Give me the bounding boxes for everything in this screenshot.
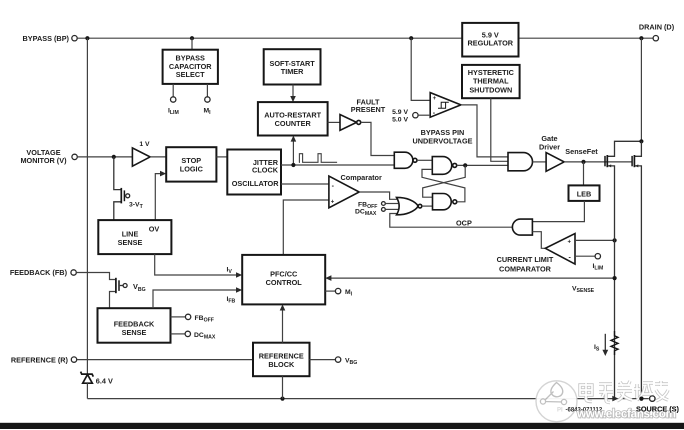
svg-text:MONITOR (V): MONITOR (V): [20, 156, 67, 165]
wire leb to and ocp: [532, 201, 584, 222]
wire refblock to pfc: [282, 310, 284, 343]
junction drain fets: [639, 139, 643, 143]
junction undervoltage tap: [409, 36, 413, 40]
junction vmon tap: [112, 155, 116, 159]
svg-text:Driver: Driver: [539, 142, 560, 151]
box PFC/CC CONTROL: [242, 255, 325, 305]
wire cross latchA to latchB: [423, 165, 466, 197]
wire reference: [77, 359, 253, 361]
buffer gate driver: [546, 153, 564, 172]
arrow VSENSE into pfc: [325, 275, 331, 281]
wire fbsense DCMAX stub: [171, 333, 186, 335]
wire ILIM stub: [172, 84, 174, 97]
wire BCS stub: [191, 38, 193, 50]
arrow into counter bottom: [291, 136, 297, 142]
wire IFB to pfc: [153, 290, 237, 308]
junction bypass-left bus: [85, 36, 89, 40]
watermark url: [576, 406, 677, 421]
nand gate latch A: [432, 157, 456, 175]
svg-text:SOURCE (S): SOURCE (S): [636, 405, 680, 414]
diode zener 6.4V: [81, 372, 94, 399]
wire fault to nand1: [361, 122, 395, 155]
svg-text:TIMER: TIMER: [281, 67, 304, 76]
pin FEEDBACK (FB): [10, 268, 76, 277]
wire comparator out to nor: [359, 192, 397, 199]
label CURRENT LIMIT COMPARATOR: [497, 255, 554, 274]
label Gate Driver: [539, 134, 560, 151]
box 5.9 V REGULATOR: [462, 23, 518, 57]
wire voltage monitor: [77, 156, 132, 158]
wire ocp and input2 from comparator: [532, 232, 545, 249]
label BYPASS PIN UNDERVOLTAGE: [413, 128, 473, 145]
wire and3 to driver: [533, 161, 547, 163]
pin SOURCE (S) redraw over watermark: [636, 396, 680, 414]
node MI pfc: [335, 288, 340, 293]
svg-text:SenseFet: SenseFet: [565, 147, 598, 156]
svg-text:BLOCK: BLOCK: [268, 360, 295, 369]
wire bottom rail: [87, 398, 648, 400]
node MI: [205, 97, 210, 102]
svg-text:COMPARATOR: COMPARATOR: [499, 265, 552, 274]
wire cl comp plus input: [575, 239, 615, 241]
box AUTO-RESTART COUNTER: [258, 102, 328, 135]
and gate U4 gate-drive: [508, 153, 533, 171]
wire VBG stub: [310, 359, 336, 361]
svg-text:OSCILLATOR: OSCILLATOR: [232, 179, 279, 188]
junction latchA out: [463, 163, 467, 167]
svg-text:+: +: [331, 200, 335, 206]
svg-text:5.9 V: 5.9 V: [392, 109, 408, 116]
box SOFT-START TIMER: [264, 49, 321, 84]
wire cl comp minus input: [575, 255, 595, 257]
box LINE SENSE: [98, 220, 171, 254]
junction leb tap: [581, 160, 585, 164]
junction drain: [639, 36, 643, 40]
wire drain bus: [640, 38, 642, 141]
pin REFERENCE (R): [11, 355, 77, 364]
arrow into stop logic: [160, 171, 166, 177]
arrow on source rail: [612, 396, 618, 402]
box HYSTERETIC THERMAL SHUTDOWN: [462, 65, 520, 98]
wire soft-start to counter: [292, 85, 294, 97]
wire comparator plus to pfc: [283, 200, 329, 255]
svg-text:Comparator: Comparator: [341, 173, 383, 182]
wire thermal to and3: [491, 98, 508, 161]
arrow IFB into pfc: [236, 287, 242, 293]
wire IV to pfc: [155, 254, 237, 275]
svg-text:PRESENT: PRESENT: [351, 105, 386, 114]
wire undervoltage out to and3: [461, 105, 508, 157]
wire nor to nandB: [422, 205, 433, 207]
box LEB: [569, 185, 600, 201]
junction reference block ground: [280, 397, 284, 401]
wire feedback: [76, 273, 116, 309]
wire latchA out: [457, 164, 508, 166]
label PI-6843-071112: [557, 407, 603, 413]
transistor vmon mosfet: [114, 157, 130, 220]
box STOP LOGIC: [166, 147, 216, 181]
svg-text:5.0 V: 5.0 V: [392, 117, 408, 124]
node FBOFF in: [382, 202, 399, 206]
svg-text:LEB: LEB: [577, 189, 592, 198]
junction vsense plus: [613, 238, 617, 242]
node VBG out: [335, 357, 340, 362]
svg-text:THERMAL: THERMAL: [473, 77, 509, 86]
junction main fet source ground: [639, 397, 643, 401]
junction vsense line: [613, 276, 617, 280]
watermark logo: [536, 381, 577, 422]
bottom bar: [0, 423, 684, 429]
arrow into auto-restart counter: [290, 96, 296, 102]
wire jitter dot to counter: [292, 140, 294, 166]
svg-text:BYPASS (BP): BYPASS (BP): [23, 34, 70, 43]
svg-text:SENSE: SENSE: [118, 238, 143, 247]
wire refblock to ground: [282, 376, 284, 398]
svg-text:HYSTERETIC: HYSTERETIC: [468, 68, 515, 77]
arrow refblock into pfc: [280, 304, 286, 310]
svg-text:6.4 V: 6.4 V: [96, 376, 113, 385]
watermark chinese glyphs: [580, 381, 668, 403]
wire left bus vertical: [86, 38, 88, 374]
svg-text:FEEDBACK (FB): FEEDBACK (FB): [10, 268, 68, 277]
resistor sense RS: [611, 331, 618, 355]
arrow IV into pfc: [236, 272, 242, 278]
pin VOLTAGE MONITOR (V): [20, 148, 77, 165]
op-amp current limit comparator: [545, 234, 575, 265]
junction jitter out: [291, 163, 295, 167]
svg-text:OCP: OCP: [456, 218, 472, 227]
op-amp comparator: [329, 176, 359, 208]
wire cross latchB to latchA: [422, 169, 465, 201]
wire MI stub pfc: [325, 290, 335, 292]
node ILIM ref: [595, 254, 600, 259]
label 5.9V 5.0V thresholds: [392, 109, 408, 124]
pin BYPASS (BP): [23, 34, 78, 43]
label FAULT PRESENT: [351, 97, 386, 114]
svg-text:CURRENT LIMIT: CURRENT LIMIT: [497, 255, 554, 264]
svg-text:REGULATOR: REGULATOR: [468, 39, 514, 48]
op-amp bypass pin undervoltage: [430, 93, 461, 118]
node DCMAX out: [185, 331, 190, 336]
wire driver to gates: [564, 161, 632, 163]
wire oscillator to comparator minus: [281, 183, 329, 185]
node DCMAX in: [382, 208, 399, 212]
nand gate latch B: [433, 194, 457, 210]
svg-text:UNDERVOLTAGE: UNDERVOLTAGE: [413, 137, 473, 146]
pin DRAIN (D): [639, 23, 675, 41]
wire OV to stop logic: [155, 174, 161, 221]
svg-text:+: +: [568, 240, 572, 246]
svg-text:PI: PI: [557, 407, 563, 413]
box FEEDBACK SENSE: [98, 308, 171, 343]
wire buffer to stop logic: [150, 156, 166, 158]
buffer 1V: [132, 141, 150, 166]
svg-text:SELECT: SELECT: [176, 70, 205, 79]
svg-text:OV: OV: [149, 224, 160, 233]
wire leb tap down: [583, 162, 585, 186]
svg-text:LOGIC: LOGIC: [180, 165, 204, 174]
wire fbsense FBOFF stub: [171, 316, 186, 318]
node FBOFF out: [185, 314, 190, 319]
node undervoltage minus pin: [413, 113, 431, 118]
svg-text:DRAIN (D): DRAIN (D): [639, 23, 675, 32]
svg-text:1 V: 1 V: [139, 141, 150, 148]
box BYPASS CAPACITOR SELECT: [163, 50, 218, 84]
svg-text:CONTROL: CONTROL: [266, 278, 303, 287]
wire jitter clock out: [281, 164, 394, 166]
wire nand1 to latch: [417, 159, 432, 161]
box JITTER CLOCK OSCILLATOR: [227, 150, 281, 195]
wire stop to jitter: [216, 156, 227, 158]
buffer fault inverter: [340, 115, 361, 131]
transistor sense fet: [605, 141, 641, 398]
transistor main fet Q1: [632, 141, 641, 398]
and gate U5 ocp (mirrored): [512, 219, 532, 235]
wire MI stub: [206, 84, 208, 97]
svg-text:REFERENCE (R): REFERENCE (R): [11, 355, 69, 364]
nand gate U3 fault-clock: [394, 152, 417, 168]
wire VSENSE to pfc: [331, 277, 615, 279]
nor gate U2: [397, 197, 422, 214]
svg-text:SHUTDOWN: SHUTDOWN: [469, 85, 512, 94]
svg-text:COUNTER: COUNTER: [275, 119, 312, 128]
box REFERENCE BLOCK: [253, 343, 310, 377]
label IS with arrow: [594, 334, 608, 356]
svg-text:SENSE: SENSE: [122, 328, 147, 337]
pin SOURCE (S): [636, 396, 680, 414]
waveform clock pulses: [299, 154, 337, 163]
svg-text:+: +: [433, 96, 437, 102]
junction bypass-capacitor-select tap: [190, 36, 194, 40]
node ILIM: [171, 97, 176, 102]
transistor feedback mosfet: [116, 278, 127, 293]
wire undervoltage plus input: [411, 38, 430, 100]
wire counter to inverter: [328, 121, 340, 123]
wire bypass rail top: [77, 37, 653, 39]
wire OCP to nor: [390, 214, 513, 228]
svg-text:CLOCK: CLOCK: [252, 166, 279, 175]
